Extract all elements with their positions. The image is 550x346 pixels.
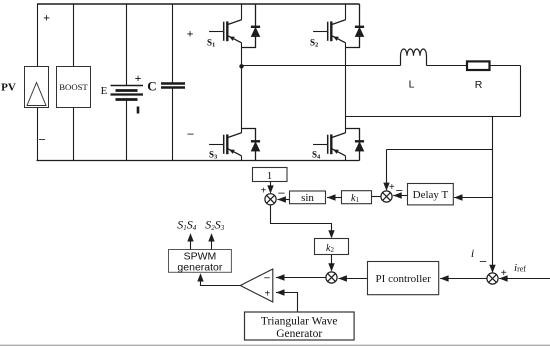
bottom DC bus wire — [37, 160, 360, 162]
wire summer 3 to PI — [440, 278, 487, 280]
wire k1 to sin — [327, 197, 342, 199]
summer 3 — [487, 273, 498, 284]
wire BOOST top — [73, 4, 75, 67]
wire tap down to summer 2 — [386, 150, 388, 190]
svg-text:S3: S3 — [209, 150, 218, 161]
wire L to R — [427, 65, 468, 67]
wire summer 1 output — [271, 205, 332, 238]
wire k2 to multiplier — [331, 255, 333, 271]
arrow into Delay T — [454, 194, 463, 200]
wire battery top — [126, 4, 128, 86]
arrow into SPWM bottom — [197, 273, 203, 281]
svg-text:S1: S1 — [207, 38, 215, 49]
wire S1 collector — [241, 4, 243, 20]
wire S2 collector — [345, 4, 347, 20]
transistor S2 — [313, 20, 345, 43]
svg-text:1: 1 — [267, 170, 273, 182]
node bridge left midpoint — [239, 64, 243, 68]
arrow into summer 2 right — [393, 192, 402, 198]
svg-text:+: + — [389, 182, 395, 193]
top DC bus wire — [37, 3, 360, 5]
wire S3 emitter — [241, 156, 243, 161]
wire load top left — [242, 65, 401, 67]
wire multiplier to comparator — [276, 277, 326, 279]
wire Delay T to summer 2 — [393, 195, 407, 197]
arrow into summer 1 top — [267, 185, 273, 193]
svg-text:BOOST: BOOST — [59, 82, 88, 92]
wire sin to summer 1 — [277, 199, 289, 201]
arrow S1S4 — [187, 233, 193, 241]
arrow into multiplier top — [328, 263, 334, 271]
arrow into k2 — [328, 230, 334, 238]
svg-text:S1S4: S1S4 — [177, 217, 197, 232]
wire S4 collector — [345, 117, 347, 134]
wire 1 to summer 1 — [270, 182, 272, 193]
svg-text:+: + — [43, 11, 50, 25]
wire comparator to SPWM — [201, 275, 241, 286]
wire diode D4 top — [346, 129, 360, 141]
arrow into multiplier right — [338, 275, 347, 281]
svg-text:Triangular Wave: Triangular Wave — [261, 316, 338, 328]
wire right rail — [520, 66, 522, 117]
arrow into summer 2 top — [383, 183, 389, 191]
arrow S2S3 — [208, 233, 214, 241]
transistor S3 — [209, 133, 241, 156]
minus sign battery — [137, 107, 140, 114]
svg-text:k2: k2 — [326, 243, 334, 254]
block 1 box — [253, 168, 288, 182]
svg-text:i: i — [471, 246, 474, 260]
wire S1 emitter — [241, 43, 243, 67]
op-amp comparator — [240, 269, 272, 302]
wire BOOST bottom — [73, 108, 75, 161]
svg-text:k1: k1 — [351, 193, 359, 204]
svg-text:–: – — [479, 254, 487, 268]
wire diode D1 bottom — [242, 36, 256, 47]
diode D3 — [251, 141, 260, 151]
wire load bottom — [346, 116, 521, 118]
svg-text:iref: iref — [514, 262, 526, 274]
wire diode D2 bottom — [346, 36, 360, 47]
wire S4 emitter — [345, 156, 347, 161]
block Triangular Wave Generator box — [245, 312, 355, 340]
svg-text:–: – — [38, 132, 46, 146]
transistor S1 — [209, 20, 241, 43]
summer 1 — [265, 194, 276, 205]
wire diode D2 top — [359, 4, 361, 26]
svg-text:Delay T: Delay T — [413, 189, 449, 201]
wire sense tap horizontal — [387, 149, 493, 151]
summer 2 — [381, 191, 392, 202]
svg-text:Generator: Generator — [276, 328, 322, 340]
wire capacitor bottom — [172, 88, 174, 161]
diode D2 — [355, 27, 364, 37]
inductor L — [401, 49, 427, 66]
resistor R — [467, 61, 490, 70]
scan edge bottom — [0, 344, 550, 346]
arrow into comparator plus — [276, 289, 285, 295]
block k1 box — [342, 191, 372, 204]
wire R to right rail — [490, 65, 521, 67]
diode D1 — [251, 27, 260, 37]
wire battery bottom — [126, 100, 128, 161]
svg-text:+: + — [187, 27, 194, 41]
wire diode D3 top — [242, 129, 256, 141]
transistor S4 — [313, 133, 345, 156]
wire diode D4 bottom — [359, 151, 361, 161]
arrow into summer 1 right — [277, 196, 286, 202]
svg-text:C: C — [147, 79, 156, 94]
svg-text:L: L — [409, 79, 415, 91]
wire PI to multiplier — [338, 278, 367, 280]
svg-text:S2S3: S2S3 — [205, 217, 225, 232]
wire triangular generator to comparator — [276, 293, 298, 313]
svg-text:PV: PV — [1, 82, 16, 94]
svg-text:–: – — [263, 271, 270, 283]
capacitor C — [161, 84, 185, 88]
svg-text:S4: S4 — [312, 150, 321, 161]
wire SPWM output S2S3 — [211, 234, 213, 249]
svg-text:+: + — [261, 186, 267, 197]
wire current sense — [492, 117, 494, 272]
svg-text:sin: sin — [301, 192, 314, 204]
wire PV top — [37, 4, 39, 67]
multiplier — [326, 272, 337, 283]
block sin box — [290, 191, 326, 204]
converter BOOST box — [57, 67, 91, 108]
wire SPWM output S1S4 — [190, 234, 192, 249]
arrow into sin — [327, 194, 336, 200]
wire summer 2 to k1 — [372, 196, 382, 198]
svg-text:–: – — [278, 185, 286, 199]
wire sense to Delay T — [454, 197, 493, 199]
wire diode D1 top — [255, 4, 257, 26]
wire iref input — [499, 278, 550, 280]
svg-text:R: R — [475, 79, 483, 91]
arrow into summer 3 right — [499, 275, 508, 281]
svg-text:+: + — [135, 71, 142, 85]
PV panel box — [25, 67, 49, 108]
svg-text:generator: generator — [177, 262, 222, 274]
svg-text:PI controller: PI controller — [376, 273, 432, 285]
arrow into PI right — [440, 275, 449, 281]
svg-text:E: E — [101, 85, 108, 97]
battery E — [111, 86, 144, 100]
wire S2 emitter — [345, 43, 347, 117]
block k2 box — [315, 239, 349, 255]
svg-text:S2: S2 — [310, 38, 318, 49]
block PI controller box — [368, 262, 439, 295]
wire PV bottom — [37, 108, 39, 161]
wire S3 collector — [241, 66, 243, 133]
svg-text:+: + — [264, 289, 270, 300]
diode D4 — [355, 141, 364, 151]
wire capacitor top — [172, 4, 174, 84]
svg-text:–: – — [187, 126, 195, 140]
arrow into comparator minus — [276, 274, 285, 280]
block Delay T box — [408, 184, 454, 205]
arrow into summer 3 — [489, 265, 495, 273]
wire diode D3 bottom — [255, 151, 257, 161]
block SPWM generator box — [169, 250, 232, 273]
